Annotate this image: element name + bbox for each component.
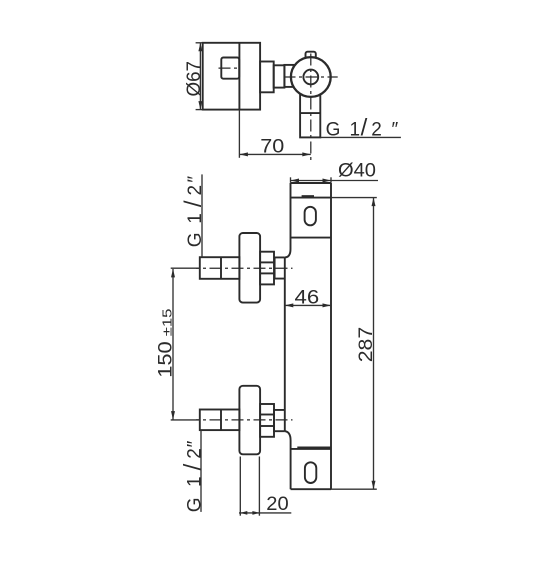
svg-text:150: 150 [155, 341, 176, 378]
svg-text:287: 287 [356, 327, 377, 363]
svg-text:70: 70 [260, 136, 284, 157]
svg-text:Ø40: Ø40 [338, 161, 376, 182]
svg-text:20: 20 [266, 494, 288, 515]
svg-text:Ø67: Ø67 [184, 61, 205, 97]
svg-text:±15: ±15 [159, 309, 174, 337]
svg-text:46: 46 [295, 288, 320, 309]
